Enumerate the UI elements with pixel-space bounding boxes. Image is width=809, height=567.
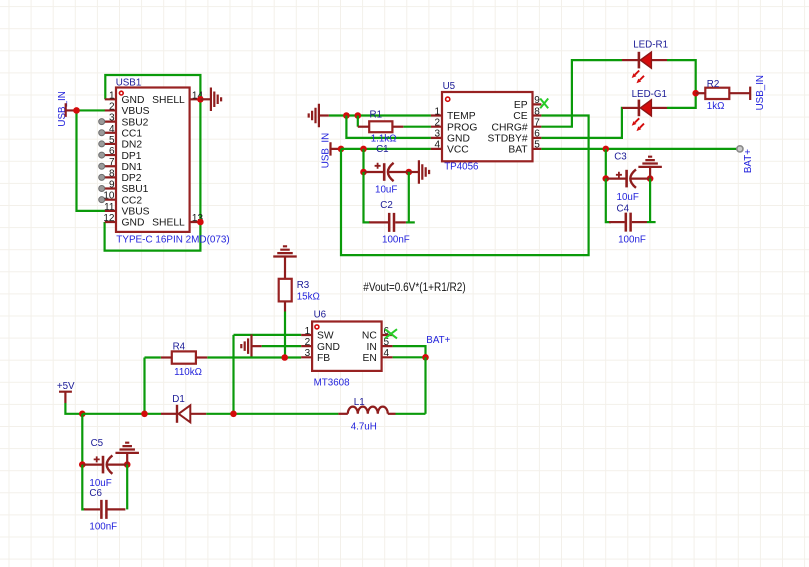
ground at U5 TEMP — [309, 104, 329, 128]
svg-text:9: 9 — [109, 180, 115, 191]
svg-text:9: 9 — [534, 95, 540, 106]
svg-text:PROG: PROG — [447, 122, 477, 133]
svg-text:C6: C6 — [89, 488, 102, 499]
svg-text:VCC: VCC — [447, 145, 469, 156]
wire +5V to rail — [65, 403, 82, 414]
wire C1 to C2 right — [408, 172, 410, 222]
wire U6 GND row — [262, 345, 302, 347]
USB1 left pin stubs 1-12 — [105, 99, 116, 222]
svg-text:3: 3 — [109, 113, 115, 124]
svg-text:USB1: USB1 — [116, 78, 142, 89]
svg-text:100nF: 100nF — [89, 522, 117, 533]
junction USB_IN/VBUS — [73, 107, 80, 114]
svg-text:R4: R4 — [173, 341, 186, 352]
junction TEMP/R1 branch — [355, 112, 362, 119]
wire R2 node down to LED-G1 anode — [667, 93, 696, 108]
svg-text:4: 4 — [434, 140, 440, 151]
svg-text:SHELL: SHELL — [152, 95, 185, 106]
svg-text:SW: SW — [317, 331, 334, 342]
svg-text:110kΩ: 110kΩ — [174, 367, 202, 378]
U6 pin-1 indicator circle — [315, 325, 319, 329]
svg-text:7: 7 — [534, 118, 540, 129]
wire R4 to FB row — [207, 356, 301, 358]
LED LED-R1 — [622, 52, 667, 84]
U6 left pin names — [317, 331, 340, 364]
svg-text:R3: R3 — [297, 280, 310, 291]
wire C5 to C6 right — [126, 465, 128, 510]
USB1 right pin stubs 13-14 — [190, 99, 201, 222]
U5 right pin stubs — [533, 104, 542, 148]
wire C3 to C4 right — [649, 179, 651, 223]
U5 right pin numbers — [534, 95, 540, 151]
svg-text:GND: GND — [317, 342, 340, 353]
svg-text:VBUS: VBUS — [122, 207, 150, 218]
U6 right pin numbers — [384, 326, 390, 359]
svg-text:10uF: 10uF — [617, 192, 639, 203]
port stub USB_IN (U5) — [331, 142, 342, 155]
no-connect dot pin 5 — [99, 141, 105, 147]
U6 left pin numbers — [305, 326, 311, 359]
svg-text:C1: C1 — [376, 144, 389, 155]
svg-text:1: 1 — [109, 90, 115, 101]
no-connect dot pin 3 — [99, 119, 105, 125]
svg-text:C2: C2 — [380, 200, 393, 211]
svg-text:C4: C4 — [617, 204, 630, 215]
svg-text:USB_IN: USB_IN — [755, 75, 766, 110]
wire C5 branch down — [81, 414, 83, 465]
junction BAT/C3 branch — [603, 146, 610, 153]
svg-text:BAT+: BAT+ — [743, 149, 754, 173]
capacitor C4 — [609, 213, 647, 232]
svg-text:LED-R1: LED-R1 — [633, 39, 668, 50]
U6 right pin stubs — [382, 335, 393, 357]
svg-text:CC1: CC1 — [122, 129, 143, 140]
svg-text:1: 1 — [434, 106, 440, 117]
svg-text:U6: U6 — [314, 310, 327, 321]
wire CE to USB_IN net — [341, 116, 589, 256]
svg-text:FB: FB — [317, 353, 330, 364]
svg-text:TYPE-C 16PIN 2MD(073): TYPE-C 16PIN 2MD(073) — [116, 235, 229, 246]
svg-text:#Vout=0.6V*(1+R1/R2): #Vout=0.6V*(1+R1/R2) — [363, 282, 466, 294]
wire R1 to PROG pin2 — [403, 126, 431, 128]
ground at U6 GND — [241, 334, 261, 358]
USB1 pin-1 indicator circle — [119, 91, 123, 95]
junction C1 left — [360, 169, 367, 176]
svg-text:6: 6 — [109, 146, 115, 157]
wire R1 branch down — [357, 116, 359, 127]
port stub USB_IN (left) — [66, 103, 77, 117]
U5 pin-1 indicator circle — [446, 97, 450, 101]
svg-text:DP2: DP2 — [122, 173, 142, 184]
wire R4 left down to rail — [145, 358, 161, 414]
no-connect dot pin 7 — [99, 163, 105, 169]
no-connect X at NC pin 6 — [385, 329, 397, 338]
wire SW row — [234, 334, 302, 336]
svg-text:D1: D1 — [172, 394, 185, 405]
junction C5 right — [124, 461, 131, 468]
USB1 pin names — [122, 95, 150, 229]
svg-text:SBU1: SBU1 — [122, 184, 149, 195]
wire R3 down to FB node — [284, 312, 286, 358]
wire LED-G1 cathode to STDBY# — [541, 108, 622, 138]
svg-text:CE: CE — [513, 111, 527, 122]
svg-text:2: 2 — [434, 118, 440, 129]
U6 left pin stubs — [301, 335, 312, 357]
svg-text:4.7uH: 4.7uH — [351, 422, 377, 433]
wire GND pin1 to top rail — [105, 75, 200, 99]
ground at C1 — [409, 160, 429, 184]
wire EN to BAT+ node — [393, 356, 426, 358]
svg-text:11: 11 — [104, 202, 115, 213]
wire SW down to D1 node — [232, 335, 234, 414]
wire CHRG# up to LED-R1 — [541, 60, 622, 127]
svg-text:12: 12 — [103, 213, 115, 224]
junction EN/IN/BAT+ — [422, 354, 429, 361]
svg-text:4: 4 — [109, 124, 115, 135]
capacitor C6 — [84, 500, 125, 519]
ground at C5 — [115, 443, 139, 465]
svg-text:C5: C5 — [91, 438, 104, 449]
ground at USB1 SHELL — [200, 88, 221, 112]
svg-text:DN1: DN1 — [122, 162, 143, 173]
junction C3 right — [647, 175, 654, 182]
svg-text:SHELL: SHELL — [152, 218, 185, 229]
wire C3 to C4 left — [606, 179, 611, 223]
wire BAT to BAT+ — [541, 148, 737, 150]
svg-text:5: 5 — [109, 135, 115, 146]
junction C3 left — [603, 175, 610, 182]
svg-text:10uF: 10uF — [375, 185, 397, 196]
svg-text:R2: R2 — [707, 79, 720, 90]
junction C5 left — [79, 461, 86, 468]
net endpoint dot BAT+ — [737, 146, 743, 152]
op-amp U5 body — [442, 92, 533, 161]
svg-text:3: 3 — [434, 129, 440, 140]
wire rail L1 to BAT+ node — [396, 413, 426, 415]
svg-text:TEMP: TEMP — [447, 111, 476, 122]
U5 right pin names — [488, 100, 529, 156]
svg-text:EN: EN — [362, 353, 376, 364]
wire USB_IN to pin2 VBUS — [77, 109, 106, 111]
junction rail/SW branch — [230, 411, 237, 418]
svg-text:BAT+: BAT+ — [426, 335, 450, 346]
svg-text:1: 1 — [305, 326, 311, 337]
svg-text:10: 10 — [103, 191, 115, 202]
svg-text:C3: C3 — [614, 152, 627, 163]
U5 left pin stubs — [431, 116, 442, 149]
svg-text:100nF: 100nF — [618, 234, 646, 245]
svg-text:DN2: DN2 — [122, 140, 143, 151]
USB1 left pin numbers — [103, 90, 115, 224]
diode D1 — [161, 405, 206, 423]
wire C5 to C6 left — [82, 465, 85, 510]
junction pin13 SHELL — [197, 219, 204, 226]
svg-text:1kΩ: 1kΩ — [707, 101, 725, 112]
svg-text:CHRG#: CHRG# — [492, 122, 528, 133]
no-connect dot pin 8 — [99, 174, 105, 180]
junction pin14 SHELL — [197, 96, 204, 103]
wire VCC row to pin4 — [341, 148, 431, 150]
resistor R4 — [161, 351, 208, 363]
wire BAT down to C3 — [605, 149, 607, 179]
op-amp U6 body — [312, 322, 382, 371]
ground at R3 — [273, 246, 297, 279]
wire LED-R1 anode to R2 node — [667, 60, 696, 93]
capacitor C2 — [369, 213, 406, 232]
svg-text:+5V: +5V — [57, 381, 75, 392]
svg-text:6: 6 — [534, 129, 540, 140]
svg-text:100nF: 100nF — [382, 234, 410, 245]
wire rail C5 to R4 branch — [82, 413, 161, 415]
capacitor C1 — [364, 163, 409, 181]
resistor R1 — [358, 121, 404, 132]
svg-text:L1: L1 — [354, 397, 365, 408]
svg-text:2: 2 — [305, 337, 311, 348]
svg-text:8: 8 — [534, 106, 540, 117]
U5 left pin numbers — [434, 106, 440, 150]
wire VCC down to C1 — [362, 149, 364, 172]
svg-text:8: 8 — [109, 168, 115, 179]
no-connect dot pin 4 — [99, 130, 105, 136]
no-connect dot pin 6 — [99, 152, 105, 158]
ground at C3 — [638, 157, 662, 179]
inductor L1 — [338, 407, 395, 414]
svg-text:STDBY#: STDBY# — [488, 134, 528, 145]
power symbol +5V — [59, 392, 72, 403]
svg-text:3: 3 — [305, 348, 311, 359]
no-connect dot pin 10 — [99, 197, 105, 203]
svg-text:SBU2: SBU2 — [122, 117, 149, 128]
svg-text:GND: GND — [122, 95, 145, 106]
junction LED anodes / R2 — [692, 90, 699, 97]
junction FB/R3 — [281, 354, 288, 361]
svg-text:DP1: DP1 — [122, 151, 142, 162]
junction C1 right — [406, 169, 413, 176]
wire TEMP row to pin1 — [329, 114, 431, 116]
svg-text:GND: GND — [447, 134, 470, 145]
svg-text:IN: IN — [366, 342, 376, 353]
svg-text:GND: GND — [122, 218, 145, 229]
svg-text:15kΩ: 15kΩ — [297, 291, 320, 302]
svg-text:MT3608: MT3608 — [314, 378, 350, 389]
wire IN to BAT+ node — [393, 346, 426, 357]
LED LED-G1 — [622, 100, 667, 132]
svg-text:NC: NC — [362, 331, 377, 342]
resistor R3 — [279, 279, 292, 312]
wire C4 right overhang — [647, 221, 656, 223]
U6 right pin names — [362, 331, 377, 364]
USB1 right pin numbers — [192, 90, 204, 224]
wire C2 right overhang — [406, 221, 415, 223]
svg-text:BAT: BAT — [508, 145, 528, 156]
U5 left pin names — [447, 111, 477, 155]
USB1 SHELL pin names — [152, 95, 185, 229]
port stub USB_IN (R2) — [749, 87, 751, 100]
svg-text:VBUS: VBUS — [122, 106, 150, 117]
junction USB_IN/VCC — [338, 146, 345, 153]
no-connect dot pin 9 — [99, 186, 105, 192]
no-connect X at EP pin 9 — [540, 99, 548, 109]
svg-text:CC2: CC2 — [122, 195, 143, 206]
wire SHELL right rail pin14 to pin13 — [199, 99, 201, 222]
wire BAT+ node down to L1 — [424, 357, 426, 414]
svg-text:7: 7 — [109, 157, 115, 168]
wire GND bottom rail pin13 to pin12 — [105, 222, 201, 251]
svg-text:5: 5 — [534, 140, 540, 151]
wire GND branch to pin3 — [346, 116, 431, 138]
junction rail/R4 branch — [141, 411, 148, 418]
svg-text:5: 5 — [384, 337, 390, 348]
resistor R2 — [696, 88, 751, 99]
svg-text:U5: U5 — [443, 81, 456, 92]
svg-text:LED-G1: LED-G1 — [632, 89, 667, 100]
wire rail D1 to L1 — [206, 413, 338, 415]
svg-text:R1: R1 — [370, 109, 383, 120]
wire C1 to C2 left — [364, 172, 371, 222]
capacitor C3 — [606, 169, 650, 187]
junction TEMP/GND branch — [343, 112, 350, 119]
svg-text:4: 4 — [384, 348, 390, 359]
capacitor C5 — [82, 455, 127, 473]
svg-text:2: 2 — [109, 102, 115, 113]
connector USB1 body — [116, 88, 190, 232]
wire USB_IN down to pin11 VBUS — [77, 110, 106, 210]
svg-text:EP: EP — [514, 100, 528, 111]
svg-text:TP4056: TP4056 — [444, 161, 479, 172]
junction VCC/C1 branch — [360, 146, 367, 153]
junction rail/C5 — [79, 411, 86, 418]
